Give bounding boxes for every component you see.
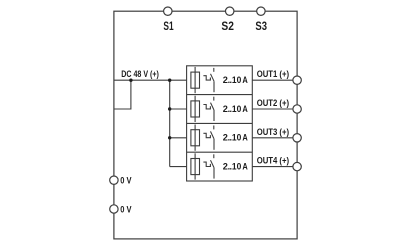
breaker symbol channel 1 bbox=[191, 67, 214, 93]
svg-text:S1: S1 bbox=[163, 19, 173, 33]
breaker symbol channel 4 bbox=[191, 153, 214, 179]
enclosure outline bbox=[114, 11, 297, 239]
svg-text:OUT1 (+): OUT1 (+) bbox=[257, 69, 289, 79]
wire bus stub channel 4 bbox=[170, 166, 187, 168]
breaker symbol channel 3 bbox=[191, 125, 214, 151]
svg-text:0 V: 0 V bbox=[120, 205, 132, 215]
wire internal supply loop bbox=[114, 80, 131, 109]
terminal OUT2 bbox=[293, 105, 301, 113]
terminal S2 bbox=[226, 7, 234, 15]
wire OUT3 bbox=[252, 137, 297, 139]
svg-text:OUT4 (+): OUT4 (+) bbox=[257, 156, 289, 166]
terminal 0V upper bbox=[110, 176, 118, 184]
terminal OUT1 bbox=[293, 76, 301, 84]
junction dot bus channel 3 bbox=[168, 136, 171, 139]
wire bus stub channel 3 bbox=[170, 137, 187, 139]
wire bus stub channel 2 bbox=[170, 108, 187, 110]
wire OUT4 bbox=[252, 166, 297, 168]
junction dot on DC wire bbox=[129, 79, 132, 82]
svg-text:2..10A: 2..10A bbox=[223, 75, 248, 85]
terminal S3 bbox=[257, 7, 265, 15]
channel box stack bbox=[187, 66, 253, 181]
svg-text:2..10A: 2..10A bbox=[223, 133, 248, 143]
svg-text:0 V: 0 V bbox=[120, 176, 132, 186]
breaker symbol channel 2 bbox=[191, 96, 214, 122]
terminal 0V lower bbox=[110, 205, 118, 213]
terminal S1 bbox=[164, 7, 172, 15]
svg-text:2..10A: 2..10A bbox=[223, 162, 248, 172]
wire distribution bus bbox=[169, 80, 171, 166]
divider channel 2/3 bbox=[187, 122, 253, 124]
wire OUT2 bbox=[252, 108, 297, 110]
svg-text:DC 48 V (+): DC 48 V (+) bbox=[121, 69, 159, 79]
divider channel 3/4 bbox=[187, 151, 253, 153]
svg-text:OUT3 (+): OUT3 (+) bbox=[257, 127, 289, 137]
junction dot bus channel 2 bbox=[168, 107, 171, 110]
wire DC 48V feed bbox=[114, 79, 187, 81]
svg-text:OUT2 (+): OUT2 (+) bbox=[257, 98, 289, 108]
svg-text:2..10A: 2..10A bbox=[223, 104, 248, 114]
svg-text:S2: S2 bbox=[221, 19, 234, 33]
terminal OUT3 bbox=[293, 134, 301, 142]
wire OUT1 bbox=[252, 79, 297, 81]
terminal OUT4 bbox=[293, 162, 301, 170]
svg-text:S3: S3 bbox=[255, 19, 267, 33]
divider channel 1/2 bbox=[187, 94, 253, 96]
junction dot bus channel 1 bbox=[168, 79, 171, 82]
